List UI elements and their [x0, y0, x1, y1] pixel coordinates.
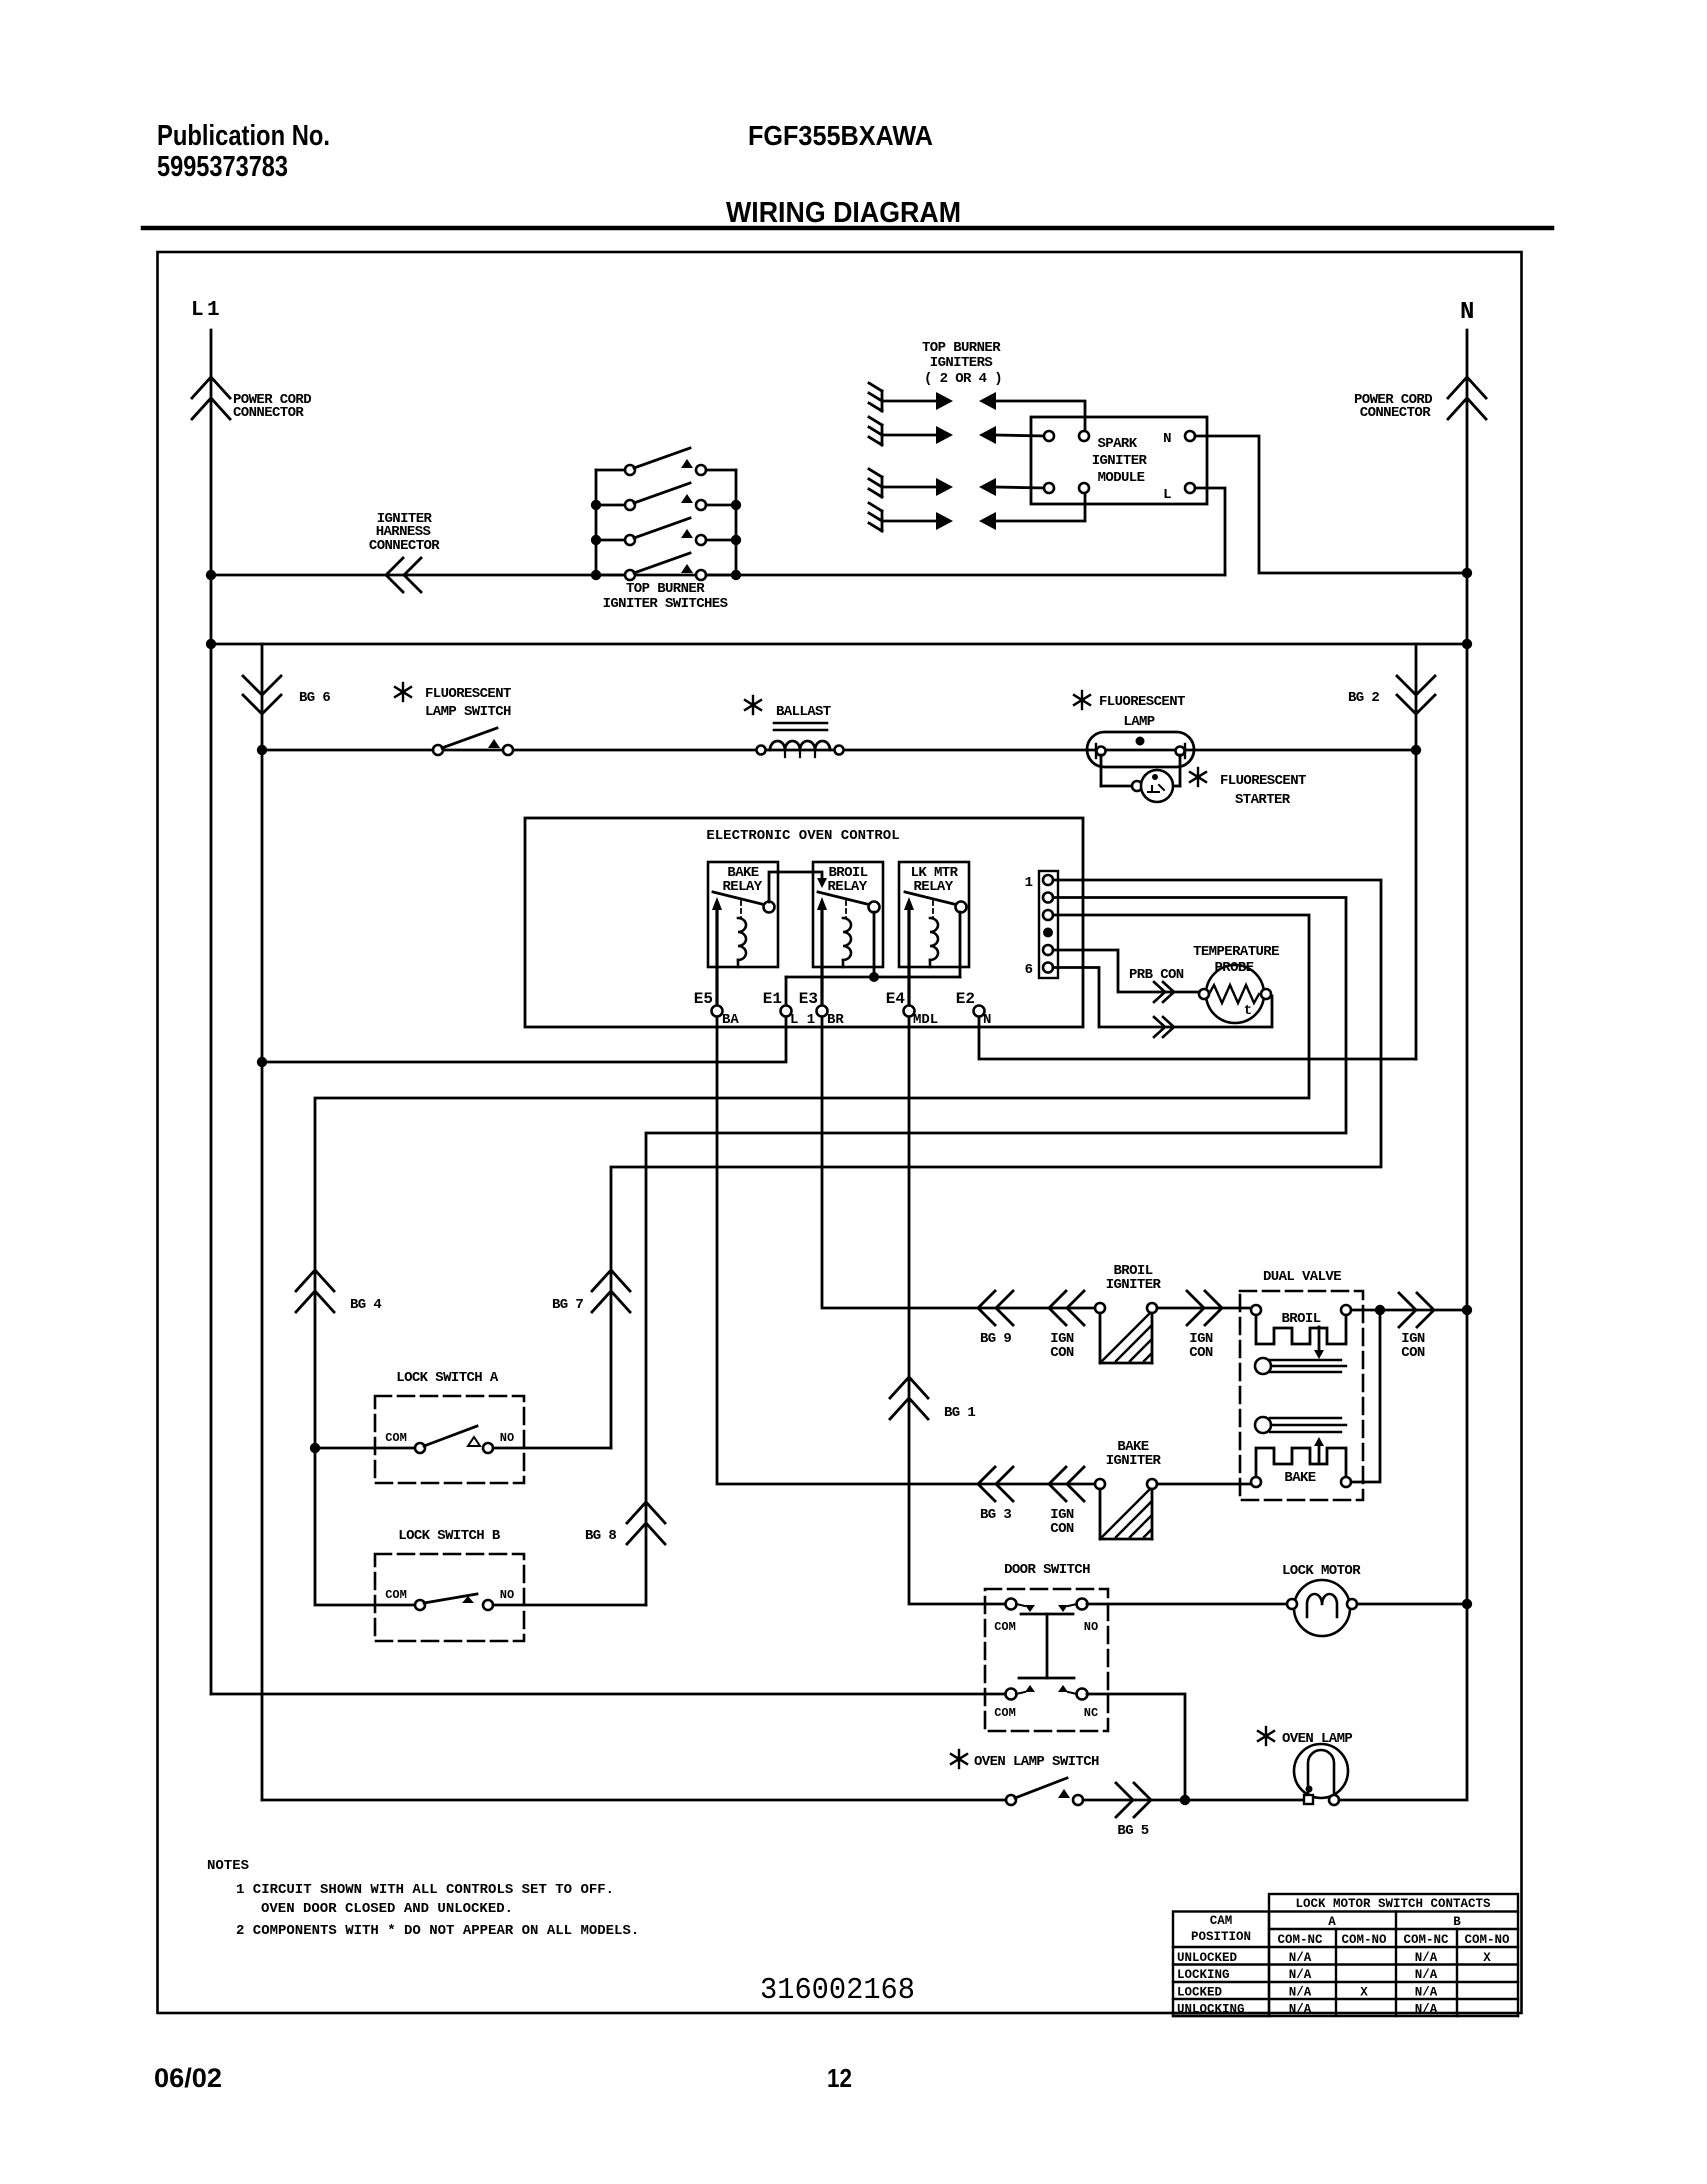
svg-text:N: N	[1163, 431, 1171, 447]
svg-text:FLUORESCENT: FLUORESCENT	[425, 686, 511, 702]
svg-text:5995373783: 5995373783	[157, 151, 288, 183]
svg-text:316002168: 316002168	[760, 1973, 915, 2008]
fluorescent lamp switch	[395, 683, 513, 755]
svg-text:N/A: N/A	[1415, 1986, 1438, 2000]
svg-text:PROBE: PROBE	[1214, 960, 1253, 976]
wire pin2 to BG8	[646, 898, 1346, 1606]
wire bake relay contact to broil relay	[769, 872, 827, 902]
junction L1 x second bus	[206, 639, 216, 649]
broil relay	[813, 862, 883, 1006]
svg-text:DOOR SWITCH: DOOR SWITCH	[1004, 1562, 1090, 1578]
top burner igniter 1	[881, 391, 884, 411]
svg-text:BG 4: BG 4	[350, 1297, 381, 1313]
wire pin1 to BG7	[611, 880, 1381, 1448]
wire bake igniter to dual valve	[1157, 1483, 1251, 1486]
svg-text:LOCKING: LOCKING	[1177, 1968, 1230, 1982]
svg-text:N: N	[1460, 299, 1474, 326]
svg-text:PRB CON: PRB CON	[1129, 967, 1184, 983]
svg-text:UNLOCKING: UNLOCKING	[1177, 2003, 1245, 2017]
svg-text:6: 6	[1025, 962, 1033, 978]
wire E4 MDL to door switch	[909, 1017, 1011, 1604]
svg-text:CONNECTOR: CONNECTOR	[369, 538, 440, 554]
junction BG4 x lock switch A	[310, 1443, 320, 1453]
connector BG 7	[552, 1270, 630, 1313]
svg-text:CONNECTOR: CONNECTOR	[233, 405, 304, 421]
wire igniter 4 to spark module	[996, 493, 1085, 521]
svg-text:L: L	[1163, 487, 1171, 503]
power cord connector N	[1448, 377, 1486, 398]
svg-text:LAMP SWITCH: LAMP SWITCH	[425, 704, 511, 720]
svg-text:E5: E5	[694, 990, 713, 1008]
top burner igniter 3	[881, 477, 884, 497]
wire E1 to BG6	[262, 1017, 786, 1062]
svg-text:LOCK MOTOR: LOCK MOTOR	[1282, 1563, 1361, 1579]
temperature probe	[1193, 944, 1279, 1023]
svg-text:STARTER: STARTER	[1235, 792, 1291, 808]
ballast	[745, 696, 844, 757]
svg-text:E4: E4	[886, 990, 906, 1008]
wire BG2 drop	[1415, 644, 1418, 1059]
svg-text:A: A	[1328, 1915, 1336, 1929]
wire door switch NO to lock motor	[1087, 1603, 1292, 1606]
svg-text:N/A: N/A	[1289, 2003, 1312, 2017]
wire dual valve bake to junction	[1351, 1310, 1380, 1482]
svg-text:E1: E1	[763, 990, 782, 1008]
wire BG6 drop	[261, 644, 264, 1800]
junction N x broil row	[1462, 1305, 1472, 1315]
notes	[207, 1858, 639, 1939]
svg-text:CON: CON	[1401, 1345, 1425, 1361]
svg-text:BG 1: BG 1	[944, 1405, 975, 1421]
svg-text:E2: E2	[956, 990, 975, 1008]
wire lock motor to N	[1357, 1603, 1467, 1606]
terminal E4 MDL	[886, 990, 938, 1028]
junction broil contact x E1 wire	[869, 972, 879, 982]
svg-text:IGNITERS: IGNITERS	[930, 355, 993, 371]
top burner igniter 2	[881, 425, 884, 445]
connector IGN CON valve right	[1399, 1293, 1434, 1361]
electronic oven control box	[525, 818, 1083, 1027]
lk mtr relay	[899, 862, 969, 1006]
svg-text:BAKE: BAKE	[1284, 1470, 1315, 1486]
connector PRB CON	[1129, 967, 1184, 1037]
svg-text:L 1: L 1	[790, 1012, 815, 1028]
svg-text:NO: NO	[500, 1431, 514, 1445]
wire lamp feed	[262, 749, 1417, 752]
wire door switch NC drop	[1087, 1694, 1185, 1800]
wire BG4 to lock switch B COM	[315, 1448, 417, 1605]
svg-text:COM: COM	[385, 1588, 407, 1602]
power cord connector L1	[192, 377, 230, 398]
junction door NC x lamp wire	[1180, 1795, 1190, 1805]
svg-text:COM: COM	[385, 1431, 407, 1445]
svg-text:OVEN DOOR CLOSED AND UNLOCKED.: OVEN DOOR CLOSED AND UNLOCKED.	[261, 1901, 513, 1917]
lock motor	[1282, 1563, 1361, 1636]
svg-text:BG 9: BG 9	[980, 1331, 1011, 1347]
svg-text:2 COMPONENTS WITH * DO NOT AP: 2 COMPONENTS WITH * DO NOT APPEAR ON ALL…	[236, 1923, 639, 1939]
svg-text:12: 12	[827, 2063, 852, 2093]
svg-text:L: L	[191, 299, 204, 322]
svg-text:FLUORESCENT: FLUORESCENT	[1220, 773, 1306, 789]
svg-text:N/A: N/A	[1289, 1986, 1312, 2000]
junction L1 x main bus	[206, 570, 216, 580]
svg-text:X: X	[1360, 1986, 1368, 2000]
door switch	[985, 1562, 1108, 1731]
svg-text:N/A: N/A	[1415, 1968, 1438, 1982]
connector BG 8	[585, 1502, 665, 1544]
svg-text:BG 6: BG 6	[299, 690, 330, 706]
wire second bus L1 to N	[211, 643, 1467, 646]
svg-text:N/A: N/A	[1289, 1951, 1312, 1965]
svg-text:BG 3: BG 3	[980, 1507, 1011, 1523]
wire E5 BA to bake igniter	[717, 1017, 1095, 1484]
svg-text:LOCKED: LOCKED	[1177, 1986, 1223, 2000]
connector BG 9	[978, 1291, 1013, 1347]
svg-text:TEMPERATURE: TEMPERATURE	[1193, 944, 1279, 960]
svg-text:RELAY: RELAY	[827, 879, 867, 895]
svg-text:UNLOCKED: UNLOCKED	[1177, 1951, 1238, 1965]
terminal E2 N	[956, 990, 992, 1028]
svg-text:BG 7: BG 7	[552, 1297, 583, 1313]
junction BG6 x lamp feed	[257, 745, 267, 755]
svg-text:1 CIRCUIT SHOWN WITH ALL CONT: 1 CIRCUIT SHOWN WITH ALL CONTROLS SET TO…	[236, 1882, 614, 1898]
connector IGN CON broil right	[1187, 1291, 1222, 1361]
wire pin3 to BG4	[315, 915, 1309, 1448]
igniter harness connector	[386, 558, 403, 592]
wire main bus L1 to spark module L	[211, 574, 1225, 577]
svg-text:TOP BURNER: TOP BURNER	[922, 340, 1001, 356]
oven lamp	[1258, 1727, 1352, 1805]
svg-text:NOTES: NOTES	[207, 1858, 249, 1874]
connector IGN CON broil left	[1049, 1291, 1084, 1361]
title rule	[143, 226, 1552, 231]
svg-text:X: X	[1483, 1951, 1491, 1965]
svg-text:( 2 OR 4 ): ( 2 OR 4 )	[924, 371, 1002, 387]
svg-text:POSITION: POSITION	[1191, 1930, 1251, 1944]
wire igniter 2 to spark module	[996, 435, 1044, 436]
svg-text:BROIL: BROIL	[1281, 1311, 1320, 1327]
svg-text:BR: BR	[827, 1012, 844, 1028]
connector BG 3	[978, 1467, 1013, 1523]
terminal E5 BA	[694, 990, 740, 1028]
junction N x lock motor row	[1462, 1599, 1472, 1609]
svg-text:IGNITER: IGNITER	[1106, 1277, 1162, 1293]
svg-text:FLUORESCENT: FLUORESCENT	[1099, 694, 1185, 710]
wire valve junction to N	[1380, 1309, 1467, 1312]
svg-text:LAMP: LAMP	[1123, 714, 1154, 730]
svg-text:DUAL VALVE: DUAL VALVE	[1263, 1269, 1341, 1285]
svg-text:B: B	[1453, 1915, 1461, 1929]
wire oven lamp to N	[1339, 1604, 1467, 1800]
svg-text:06/02: 06/02	[154, 2063, 222, 2093]
lock motor contacts table	[1173, 1894, 1518, 2017]
bake igniter	[1095, 1439, 1161, 1539]
svg-text:FGF355BXAWA: FGF355BXAWA	[748, 120, 933, 151]
svg-text:RELAY: RELAY	[722, 879, 762, 895]
top burner igniter 4	[881, 511, 884, 531]
svg-text:LOCK SWITCH A: LOCK SWITCH A	[396, 1370, 499, 1386]
wire pin6 to probe return	[1053, 968, 1272, 1028]
svg-text:OVEN LAMP SWITCH: OVEN LAMP SWITCH	[974, 1754, 1099, 1770]
wire igniter 3 to spark module	[996, 487, 1044, 488]
svg-text:CAM: CAM	[1210, 1914, 1233, 1928]
svg-text:MODULE: MODULE	[1098, 470, 1145, 486]
wire pin5 to probe	[1053, 950, 1200, 992]
svg-text:IGNITER: IGNITER	[1106, 1453, 1162, 1469]
junction BG6 x E1 wire	[257, 1057, 267, 1067]
junction N x spark module feed	[1462, 568, 1472, 578]
connector BG 5	[1116, 1783, 1151, 1839]
connector BG 4	[296, 1270, 381, 1313]
wire spark module N to N line	[1195, 436, 1467, 573]
wire L1 vertical	[210, 330, 213, 1694]
connector BG 6	[243, 676, 281, 695]
svg-text:MDL: MDL	[913, 1012, 938, 1028]
oven lamp switch	[951, 1750, 1099, 1805]
svg-text:IGNITER: IGNITER	[1092, 453, 1148, 469]
wire broil igniter to dual valve	[1157, 1307, 1251, 1310]
svg-text:NC: NC	[1084, 1706, 1098, 1720]
broil igniter	[1095, 1263, 1161, 1363]
terminal E1 L1	[763, 990, 815, 1028]
connector IGN CON bake left	[1049, 1467, 1084, 1537]
spark igniter module	[1031, 417, 1207, 504]
EOC connector pin strip	[1025, 871, 1058, 978]
svg-text:t: t	[1244, 1003, 1252, 1019]
wire N vertical	[1466, 330, 1469, 1607]
svg-text:1: 1	[207, 299, 220, 322]
svg-text:BG 2: BG 2	[1348, 690, 1379, 706]
svg-text:COM: COM	[994, 1620, 1016, 1634]
svg-text:BG 8: BG 8	[585, 1528, 616, 1544]
svg-text:SPARK: SPARK	[1097, 436, 1137, 452]
svg-text:ELECTRONIC OVEN CONTROL: ELECTRONIC OVEN CONTROL	[706, 828, 899, 844]
svg-text:TOP BURNER: TOP BURNER	[626, 581, 705, 597]
svg-text:NO: NO	[500, 1588, 514, 1602]
svg-text:COM-NC: COM-NC	[1277, 1933, 1323, 1947]
svg-text:E3: E3	[799, 990, 818, 1008]
connector BG 1	[890, 1377, 975, 1421]
svg-text:CON: CON	[1189, 1345, 1213, 1361]
connector BG 2	[1397, 676, 1435, 695]
svg-text:BG 5: BG 5	[1117, 1823, 1148, 1839]
top burner igniter switches	[591, 448, 741, 612]
wire igniter 1 to spark module	[996, 401, 1085, 431]
wire spark module L to main bus	[1195, 488, 1225, 575]
wire broil contact to E1 and lk mtr contact	[786, 912, 960, 1006]
svg-text:Publication No.: Publication No.	[157, 120, 330, 152]
svg-text:BALLAST: BALLAST	[776, 704, 831, 720]
diagram border frame	[158, 252, 1522, 2013]
svg-text:CON: CON	[1050, 1521, 1074, 1537]
svg-text:LOCK SWITCH B: LOCK SWITCH B	[398, 1528, 501, 1544]
dual valve	[1240, 1269, 1363, 1500]
lock switch B	[375, 1528, 646, 1641]
svg-text:COM: COM	[994, 1706, 1016, 1720]
svg-text:N: N	[983, 1012, 991, 1028]
bake relay	[708, 862, 778, 1006]
junction N x second bus	[1462, 639, 1472, 649]
svg-text:COM-NO: COM-NO	[1341, 1933, 1387, 1947]
wire dual valve broil to IGN CON	[1351, 1309, 1380, 1312]
svg-text:N/A: N/A	[1289, 1968, 1312, 1982]
wire E2 to N drop	[979, 1017, 1416, 1059]
svg-text:COM-NC: COM-NC	[1403, 1933, 1449, 1947]
svg-text:RELAY: RELAY	[913, 879, 953, 895]
svg-text:WIRING DIAGRAM: WIRING DIAGRAM	[726, 197, 961, 229]
svg-text:BA: BA	[722, 1012, 739, 1028]
svg-text:IGNITER SWITCHES: IGNITER SWITCHES	[603, 596, 728, 612]
junction BG2 x fluorescent lamp wire	[1411, 745, 1421, 755]
wire BG5 to oven lamp	[1083, 1799, 1304, 1802]
junction valve output	[1375, 1305, 1385, 1315]
svg-text:COM-NO: COM-NO	[1464, 1933, 1510, 1947]
wire BG6 to oven lamp switch	[262, 1799, 1011, 1802]
svg-text:N/A: N/A	[1415, 2003, 1438, 2017]
terminal E3 BR	[799, 990, 845, 1028]
wire E3 BR to broil igniter	[822, 1017, 1095, 1308]
lock switch A	[315, 1370, 611, 1483]
wire L1 to door switch COM	[211, 1693, 1011, 1696]
svg-text:LOCK MOTOR SWITCH CONTACTS: LOCK MOTOR SWITCH CONTACTS	[1295, 1897, 1491, 1911]
svg-text:NO: NO	[1084, 1620, 1098, 1634]
fluorescent starter	[1101, 755, 1306, 808]
svg-text:N/A: N/A	[1415, 1951, 1438, 1965]
svg-text:1: 1	[1025, 875, 1033, 891]
svg-text:CONNECTOR: CONNECTOR	[1360, 405, 1431, 421]
svg-text:CON: CON	[1050, 1345, 1074, 1361]
fluorescent lamp	[1074, 691, 1194, 767]
